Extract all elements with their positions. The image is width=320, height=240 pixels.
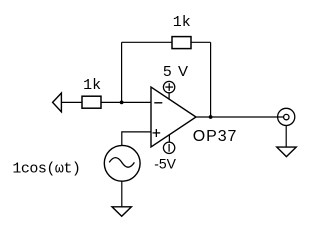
wire op-amp output to terminal (196, 116, 284, 118)
op-amp U1 inverting input marker - (154, 102, 162, 104)
node OUT (junction dot at output) (209, 115, 213, 119)
terminal OUT (probe circle) (278, 108, 295, 125)
svg-text:1k: 1k (173, 14, 191, 31)
wire IN to R1 (61, 101, 82, 103)
resistor R1 (82, 96, 101, 108)
wire source to ground (121, 181, 123, 207)
port IN (input terminal arrow) (53, 93, 62, 112)
power +5V pin of U1 (163, 81, 174, 99)
svg-text:5 V: 5 V (163, 63, 189, 80)
svg-text:1k: 1k (83, 77, 101, 94)
svg-text:1cos(ωt): 1cos(ωt) (12, 161, 80, 178)
wire terminal to ground (285, 126, 287, 148)
svg-text:-5V: -5V (154, 155, 176, 171)
wire non-inverting input to source V1 (122, 132, 151, 146)
node A (junction dot at inverting input) (120, 101, 124, 105)
wire R1 to op-amp inverting input (101, 101, 151, 103)
ground (source side) (112, 207, 131, 217)
wire feedback top left (122, 41, 172, 43)
wire feedback left vertical (121, 42, 123, 102)
op-amp U1 non-inverting input marker + (153, 129, 161, 137)
op-amp U1 triangle (151, 87, 196, 147)
wire feedback right vertical (210, 42, 212, 117)
wire feedback top right (191, 41, 211, 43)
ground (output side) (277, 147, 296, 157)
svg-text:OP37: OP37 (193, 128, 238, 145)
resistor R2 (feedback) (172, 37, 191, 49)
power -5V pin of U1 (163, 134, 174, 153)
source V1 (sine voltage source) (104, 145, 140, 181)
